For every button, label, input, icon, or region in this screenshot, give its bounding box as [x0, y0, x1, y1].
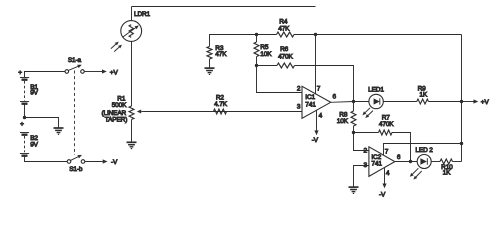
resistor R7	[354, 132, 379, 134]
wire S1-b to -V arrow	[85, 161, 101, 163]
node B junction	[255, 64, 258, 67]
svg-text:7: 7	[317, 86, 321, 93]
resistor R4	[257, 34, 277, 36]
svg-text:R5: R5	[260, 44, 269, 51]
svg-text:-V: -V	[379, 192, 386, 199]
switch S1-a	[65, 65, 84, 74]
R1 wiper arrow	[141, 111, 146, 113]
wire R3 top to node A	[210, 35, 257, 47]
switch S1-b	[67, 155, 85, 163]
svg-text:4: 4	[319, 112, 323, 119]
svg-text:10K: 10K	[260, 51, 272, 58]
wire LED2 to R10	[431, 161, 440, 163]
resistor R6	[257, 65, 278, 67]
svg-text:741: 741	[305, 101, 316, 108]
node A junction	[255, 33, 258, 36]
svg-text:LED 2: LED 2	[415, 147, 433, 154]
wire R6 right to IC1 output node	[295, 66, 354, 102]
photoresistor LDR1	[121, 21, 142, 42]
svg-text:R6: R6	[280, 46, 289, 53]
node pin7 rail junction	[314, 33, 317, 36]
svg-text:TAPER): TAPER)	[105, 117, 127, 124]
node +V rail junction	[460, 100, 463, 103]
wire right rail vertical	[461, 35, 463, 162]
wire node R8 to IC2 pin2	[354, 133, 369, 151]
resistor R9	[417, 99, 429, 104]
wire IC2 output row	[395, 161, 418, 163]
node battery midpoint	[23, 116, 26, 119]
svg-text:470K: 470K	[278, 54, 293, 61]
svg-text:-V: -V	[111, 159, 118, 166]
LED2	[417, 155, 431, 169]
wire R9 to +V rail node	[429, 101, 462, 103]
wire IC2 pin3 to ground	[354, 166, 369, 187]
wire +V branch to right rail	[316, 34, 462, 36]
svg-text:S1-b: S1-b	[69, 166, 83, 173]
svg-text:LDR1: LDR1	[134, 11, 151, 18]
wire top rail	[132, 6, 316, 8]
node pin7 rail junction	[460, 142, 463, 145]
node IC2 output junction	[409, 160, 412, 163]
battery B2	[20, 121, 29, 156]
svg-text:9V: 9V	[30, 141, 38, 148]
wire B1 bottom to junction	[24, 104, 26, 118]
wire IC1 pin 7 to +V node	[315, 35, 317, 94]
resistor R8	[353, 102, 355, 112]
wire R7 to IC2 output node	[392, 133, 411, 162]
wire R10 to rail corner	[453, 161, 462, 163]
ground below R1	[127, 142, 137, 148]
svg-text:2: 2	[364, 148, 368, 155]
wire B2 bottom to S1-b	[25, 156, 68, 162]
svg-text:4: 4	[386, 170, 390, 177]
op-amp IC2 741	[369, 147, 395, 177]
wire IC1 output row	[331, 101, 369, 104]
potentiometer R1	[129, 106, 134, 120]
svg-text:741: 741	[371, 160, 382, 167]
switch gang dashed link	[74, 71, 76, 156]
svg-text:6: 6	[333, 94, 337, 101]
battery B1	[18, 70, 29, 104]
ground below IC2	[349, 187, 359, 193]
wire node B to IC1 pin2	[257, 66, 303, 93]
node R8 bottom junction	[352, 131, 355, 134]
svg-text:+V: +V	[110, 69, 119, 76]
svg-text:-V: -V	[312, 137, 319, 144]
svg-text:47K: 47K	[215, 51, 227, 58]
LED1	[369, 94, 383, 108]
ground below R3	[205, 68, 215, 74]
svg-text:470K: 470K	[379, 121, 394, 128]
wire R1 bottom stem	[131, 120, 133, 143]
svg-text:9V: 9V	[30, 89, 38, 96]
svg-text:2: 2	[297, 86, 301, 93]
op-amp IC1 741	[302, 86, 331, 118]
resistor R3	[207, 46, 212, 59]
resistor R2	[214, 109, 227, 114]
svg-text:6: 6	[397, 154, 401, 161]
resistor R10	[440, 159, 453, 164]
svg-text:4.7K: 4.7K	[214, 101, 228, 108]
LDR1 light arrows	[111, 42, 122, 52]
wire LED1 to R9	[383, 101, 417, 103]
wire IC2 pin 7 to +V rail	[384, 144, 462, 156]
svg-text:7: 7	[385, 149, 389, 156]
svg-text:500K: 500K	[112, 102, 127, 109]
wire R3 bottom stem	[209, 59, 211, 68]
wire LDR1 top stem	[131, 7, 133, 21]
wire LDR1 bottom to R1	[131, 41, 133, 106]
wire S1-a to +V arrow	[84, 71, 100, 73]
svg-text:+: +	[18, 70, 22, 77]
wire IC2 pin 4 to -V arrow	[384, 168, 386, 179]
svg-text:47K: 47K	[278, 25, 290, 32]
wire wiper row to IC1 pin3	[144, 111, 302, 113]
svg-text:3: 3	[297, 103, 301, 110]
svg-text:1K: 1K	[443, 170, 451, 177]
ground at battery midpoint	[54, 128, 64, 134]
svg-text:+: +	[20, 121, 24, 128]
+V output arrow	[462, 101, 474, 103]
node IC1 output junction	[352, 100, 355, 103]
svg-text:10K: 10K	[337, 118, 349, 125]
svg-text:+V: +V	[481, 99, 490, 106]
wire IC1 pin 4 to -V arrow	[316, 111, 318, 127]
svg-text:S1-a: S1-a	[68, 57, 82, 64]
resistor R5	[256, 35, 258, 43]
svg-text:IC1: IC1	[305, 94, 315, 101]
svg-text:1K: 1K	[419, 92, 427, 99]
wire junction to ground	[25, 118, 59, 128]
wire B1 top to S1-a	[25, 72, 66, 78]
LED1 emission arrows	[362, 108, 373, 118]
LED2 emission arrows	[410, 168, 422, 179]
svg-text:LED1: LED1	[368, 87, 384, 94]
